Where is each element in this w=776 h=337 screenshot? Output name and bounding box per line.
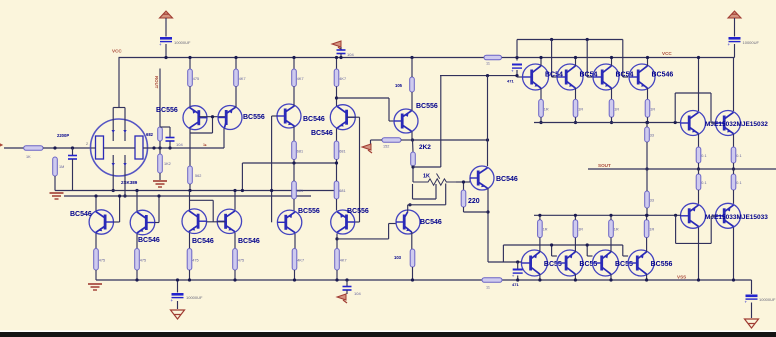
junction rail R16 bbox=[188, 278, 191, 281]
Q17 emitter wire bbox=[647, 88, 649, 99]
U1 right gate bar bbox=[135, 136, 143, 159]
svg-text:ROUT: ROUT bbox=[154, 76, 159, 89]
wire C9 down to base stub bbox=[516, 70, 518, 77]
svg-text:BC55: BC55 bbox=[579, 261, 597, 268]
svg-text:BC546: BC546 bbox=[70, 211, 92, 218]
U1 drain bracket bbox=[113, 107, 125, 109]
wire emitter line B to RE5 bbox=[539, 215, 541, 220]
svg-text:BC55: BC55 bbox=[544, 261, 562, 268]
svg-text:1R: 1R bbox=[544, 107, 549, 111]
junction emitter line 1 bbox=[539, 121, 542, 124]
wire bracket top bbox=[675, 92, 711, 94]
Q7-Q8 base column bbox=[212, 200, 214, 222]
svg-text:BC546: BC546 bbox=[420, 219, 442, 226]
resistor R23 220 bbox=[461, 190, 466, 207]
junction rail R18 bbox=[293, 278, 296, 281]
U1 left drain lead bbox=[112, 108, 114, 120]
wire VSS bottom rail right segment bbox=[502, 279, 752, 281]
Q6 collector wire bbox=[136, 191, 138, 212]
junction VSS rail at C6 bbox=[345, 278, 348, 281]
svg-text:475: 475 bbox=[238, 258, 244, 262]
Q13 emitter wire bbox=[411, 232, 413, 249]
svg-text:2200P: 2200P bbox=[57, 133, 69, 138]
U1 left drain internal bbox=[112, 120, 114, 142]
transistor Q2 BC556 bbox=[218, 106, 242, 130]
junction VCC rail at C5 bbox=[339, 56, 342, 59]
transistor Q13 BC546 bbox=[396, 210, 420, 234]
Q13 base stub bbox=[389, 223, 397, 225]
junction SOUT chain bbox=[645, 167, 648, 170]
wire input node to U1 gate bbox=[91, 147, 96, 149]
wire tail to R13 bbox=[336, 163, 338, 181]
junction VCC Q17 bbox=[646, 56, 649, 59]
wire SOUT to R35 bbox=[733, 169, 735, 174]
transistor Q17 BC546 bbox=[629, 64, 655, 90]
resistor R16 475 bbox=[187, 249, 192, 271]
wire R24 to rail bbox=[412, 267, 414, 280]
Q19 collector wire bbox=[733, 58, 735, 112]
transistor Q7 BC546 bbox=[182, 209, 207, 234]
wire RE5 to Q22 bbox=[539, 238, 541, 252]
wire base line down to emitter node bbox=[502, 245, 504, 262]
svg-text:4K7: 4K7 bbox=[340, 258, 347, 262]
svg-text:682: 682 bbox=[146, 132, 154, 137]
Q25 collector to VSS bbox=[646, 274, 648, 280]
svg-text:33: 33 bbox=[650, 199, 654, 203]
wire VSS rail corner down right bbox=[751, 280, 753, 294]
transistor Q15 BC546 bbox=[557, 64, 583, 90]
Q12 emitter wire bbox=[487, 188, 489, 262]
wire driver emitter line B bbox=[534, 214, 681, 216]
transistor Q8 BC546 bbox=[217, 209, 241, 233]
junction SOUT R29 bbox=[732, 167, 735, 170]
Q5 base feed v bbox=[119, 196, 121, 222]
svg-text:0.1: 0.1 bbox=[701, 181, 706, 185]
ground GND top-right bbox=[728, 11, 741, 18]
svg-text:BC546: BC546 bbox=[192, 238, 214, 245]
base column T3-Q9 bbox=[271, 116, 273, 222]
svg-text:BC556: BC556 bbox=[347, 208, 369, 215]
transistor Q9 BC556 bbox=[277, 210, 301, 234]
wire R2 to ground line bbox=[54, 176, 56, 191]
wire bracket B up right bbox=[710, 216, 712, 243]
Q19 emitter wire bbox=[733, 134, 735, 147]
svg-text:475: 475 bbox=[99, 258, 105, 262]
svg-text:BC546: BC546 bbox=[238, 238, 260, 245]
svg-text:475: 475 bbox=[140, 258, 146, 262]
wire rail to R8 bbox=[336, 58, 338, 70]
Q11 emitter wire bbox=[411, 92, 413, 111]
ground GND input bbox=[50, 192, 64, 194]
transistor Q22 BC556 bbox=[521, 250, 547, 276]
svg-text:681: 681 bbox=[339, 149, 345, 153]
svg-text:104: 104 bbox=[176, 142, 183, 147]
Q7 emitter wire bbox=[189, 233, 191, 249]
wire VCC feed down to U1 bbox=[118, 58, 120, 108]
capacitor C4 10000UF bbox=[746, 295, 758, 298]
junction Q13 collector bbox=[408, 203, 411, 206]
junction FB R3 bbox=[158, 146, 161, 149]
junction lower base line 3 bbox=[586, 243, 589, 246]
wire U1 right gate to feedback node bbox=[143, 147, 224, 149]
wire R23 bottom bbox=[463, 207, 465, 212]
base column T4-Q10 bbox=[359, 117, 361, 222]
wire bracket up left bbox=[674, 93, 676, 123]
transistor Q20 MJE15033 bbox=[681, 203, 706, 228]
wire emitter line B to RE6 bbox=[574, 215, 576, 220]
Q8 collector wire bbox=[234, 191, 236, 210]
wire tail down to bias A bbox=[241, 163, 243, 191]
wire R11 to tail line bbox=[336, 160, 338, 164]
potentiometer RP1 1K zigzag bbox=[413, 179, 456, 185]
stub to Q16 base bbox=[587, 76, 592, 78]
wire rail to R20 bbox=[411, 58, 413, 78]
svg-text:681: 681 bbox=[297, 189, 303, 193]
junction base line 1 bbox=[550, 38, 553, 41]
wire C3 to ground bbox=[177, 301, 179, 309]
wire SOUT to R32 bbox=[646, 169, 648, 191]
ground GND R21 bbox=[362, 144, 371, 150]
wire into Q12 base bbox=[470, 177, 472, 179]
svg-text:1R: 1R bbox=[649, 228, 654, 232]
wire FB node down bbox=[159, 148, 161, 154]
junction emitter line B 2 bbox=[574, 214, 577, 217]
wire R28 to SOUT bbox=[698, 163, 700, 169]
svg-text:BC546: BC546 bbox=[652, 72, 674, 79]
resistor RE2 1R bbox=[573, 99, 578, 117]
resistor R13 681 bbox=[334, 181, 339, 199]
junction VCC Q16 bbox=[610, 56, 613, 59]
junction feedback node bbox=[152, 146, 155, 149]
svg-text:BC556: BC556 bbox=[156, 107, 178, 114]
resistor RE8 1R bbox=[644, 220, 649, 238]
wire RE3 to emitter line bbox=[611, 117, 613, 122]
Q10 emitter wire bbox=[336, 234, 338, 249]
junction C9 bias line bbox=[515, 74, 518, 77]
transistor Q21 MJE15033 bbox=[716, 203, 741, 228]
svg-text:10000UF: 10000UF bbox=[759, 297, 776, 302]
wire Q4 collector to Q11 base h bbox=[337, 97, 390, 99]
junction bias VAS collector bbox=[486, 74, 489, 77]
Q15 emitter wire bbox=[575, 88, 577, 99]
wire RE1 to emitter line bbox=[540, 117, 542, 122]
wire R15 to rail bbox=[136, 270, 138, 280]
junction Q10 emitter tap bbox=[335, 237, 338, 240]
resistor R6 4K7 bbox=[234, 69, 239, 87]
svg-text:BC55: BC55 bbox=[615, 261, 633, 268]
wire input to R1 bbox=[4, 147, 24, 149]
wire rail to R7 bbox=[293, 58, 295, 70]
resistor R31 33 bbox=[645, 127, 650, 142]
resistor R14 475 bbox=[94, 249, 99, 271]
transistor Q14 BC546 bbox=[523, 64, 549, 90]
wire VCC top rail left segment bbox=[119, 57, 485, 59]
junction base column bias A bbox=[270, 189, 273, 192]
junction rail R20 bbox=[410, 56, 413, 59]
Q6 emitter wire bbox=[136, 234, 138, 249]
resistor R20 105 bbox=[410, 77, 415, 92]
junction R22 bias bbox=[411, 165, 414, 168]
wire gnd arrow to cap C5 bbox=[340, 47, 342, 50]
svg-text:2K2: 2K2 bbox=[419, 144, 431, 151]
wire C4 to ground bbox=[751, 303, 753, 319]
junction Q11 collector node bbox=[411, 138, 414, 141]
svg-text:+: + bbox=[159, 42, 162, 47]
wire RE4 to emitter line bbox=[647, 117, 649, 122]
screenshot bottom border bar bbox=[0, 331, 776, 333]
wire emitter line B to RE7 bbox=[610, 215, 612, 220]
wire Q13 loop h bbox=[408, 204, 446, 206]
wire bias up to base line bbox=[516, 58, 518, 61]
junction rail R8 bbox=[335, 56, 338, 59]
Q9 emitter wire bbox=[294, 234, 296, 249]
wire R12 to Q9 top bbox=[293, 199, 295, 211]
wire C6 to gnd arrow bbox=[346, 290, 348, 294]
svg-text:220: 220 bbox=[468, 198, 480, 205]
wire R29 to SOUT bbox=[733, 163, 735, 169]
transistor Q6 BC546 bbox=[130, 210, 155, 235]
base drop Q17 bbox=[622, 40, 624, 78]
wire R31 to SOUT bbox=[646, 142, 648, 169]
junction tail R12 bbox=[292, 161, 295, 164]
svg-text:1M: 1M bbox=[59, 165, 64, 169]
junction SOUT R28 bbox=[697, 167, 700, 170]
svg-text:475: 475 bbox=[192, 258, 198, 262]
junction VSS Q21 bbox=[732, 278, 735, 281]
base drop Q16 bbox=[586, 40, 588, 78]
wire bracket down right bbox=[710, 93, 712, 123]
junction emitter line 2 bbox=[574, 121, 577, 124]
svg-text:1K2: 1K2 bbox=[164, 162, 171, 166]
junction Q4 collector tap bbox=[335, 96, 338, 99]
wire R35 to Q21 bbox=[733, 190, 735, 204]
capacitor C1 10000UF bbox=[160, 37, 172, 40]
wire C8 to FB line bbox=[169, 141, 171, 148]
Q11 collector wire bbox=[411, 132, 413, 141]
junction emitter line B bracket bbox=[674, 214, 677, 217]
transistor Q24 BC556 bbox=[593, 250, 619, 276]
resistor R27 rail decoupler bottom bbox=[482, 278, 502, 283]
Q5 base feed h bbox=[114, 221, 120, 223]
ground GND bottom-left bbox=[171, 310, 185, 319]
U1 right drain internal bbox=[124, 120, 126, 142]
transistor Q1 BC556 bbox=[183, 106, 207, 130]
svg-text:105: 105 bbox=[395, 83, 403, 88]
svg-text:1R: 1R bbox=[578, 107, 583, 111]
resistor R18 4K7 bbox=[292, 249, 297, 271]
wire driver base line top bbox=[517, 39, 623, 41]
svg-text:10000UF: 10000UF bbox=[174, 40, 191, 45]
wire up to Q13 base bbox=[388, 224, 390, 239]
Q8 emitter wire bbox=[234, 233, 236, 249]
capacitor C5 104 bbox=[337, 49, 346, 51]
wire VAS collector up bbox=[487, 76, 489, 166]
wire R14 to rail bbox=[95, 270, 97, 280]
resistor R7 4K7 bbox=[292, 69, 297, 87]
stub to Q17 base bbox=[623, 76, 628, 78]
svg-text:+: + bbox=[728, 42, 731, 47]
Q2 collector wire bbox=[223, 128, 225, 148]
resistor RE1 1R bbox=[539, 99, 544, 117]
junction base line 2 bbox=[586, 38, 589, 41]
svg-text:BC556: BC556 bbox=[416, 103, 438, 110]
Q7 diode loop h bbox=[190, 199, 214, 201]
svg-text:0.1: 0.1 bbox=[701, 154, 706, 158]
U1 left source internal bbox=[112, 155, 114, 176]
transistor Q11 BC556 bbox=[394, 109, 418, 133]
resistor R17 475 bbox=[233, 249, 238, 271]
wire bias line A bbox=[55, 190, 337, 192]
ground GND bottom-right bbox=[745, 319, 759, 328]
wire bias vertical bbox=[440, 76, 442, 167]
junction lower base line 2 bbox=[550, 243, 553, 246]
Q15 collector to VCC bbox=[575, 58, 577, 66]
svg-text:2: 2 bbox=[86, 142, 88, 146]
U1 right source internal bbox=[124, 155, 126, 176]
U1 right source lead bbox=[124, 176, 126, 196]
wire cap C2 to VCC rail bbox=[734, 44, 736, 58]
junction VSS Q20 bbox=[697, 278, 700, 281]
wire Q10 emitter to Q13 base h bbox=[337, 238, 389, 240]
svg-text:BC546: BC546 bbox=[496, 176, 518, 183]
Q3 collector wire bbox=[293, 87, 295, 106]
Q5 collector wire bbox=[95, 196, 97, 211]
wire R3 to FB line bbox=[159, 141, 161, 148]
wire ROUT stub bbox=[159, 69, 161, 128]
ground GND under rail bbox=[88, 283, 102, 285]
wire cap C10 top bbox=[517, 262, 519, 269]
junction VCC rail at C1 bbox=[164, 56, 167, 59]
wire VCC top rail right segment bbox=[502, 57, 735, 59]
Q1 collector wire bbox=[189, 129, 191, 166]
junction VSS C10 bbox=[516, 278, 519, 281]
junction Q6 base bias bbox=[157, 194, 160, 197]
wire R22 bottom bbox=[412, 166, 414, 182]
junction rail R17 bbox=[233, 278, 236, 281]
transistor Q23 BC556 bbox=[557, 250, 583, 276]
wire node to Q12 collector bbox=[413, 139, 488, 141]
junction left source on bias line A bbox=[112, 189, 115, 192]
svg-text:BC556: BC556 bbox=[243, 114, 265, 121]
wire bracket B to Q21 base bbox=[711, 215, 715, 217]
transistor Q18 MJE15032 bbox=[681, 111, 706, 136]
svg-text:471: 471 bbox=[512, 282, 519, 287]
transistor Q16 BC546 bbox=[593, 64, 619, 90]
resistor RE3 1R bbox=[609, 99, 614, 117]
junction emitter line B 1 bbox=[538, 214, 541, 217]
wire top-right ground to cap bbox=[734, 18, 736, 37]
junction emitter line 4 bbox=[646, 121, 649, 124]
junction VCC Q15 bbox=[574, 56, 577, 59]
wire R13 to Q10 top bbox=[336, 199, 338, 211]
junction rail R6 bbox=[234, 56, 237, 59]
Q17 collector to VCC bbox=[647, 58, 649, 66]
wire R23 to emitter line bbox=[464, 211, 489, 213]
capacitor C8 104 bbox=[166, 137, 175, 139]
wire Q13 loop right v bbox=[445, 184, 447, 205]
wire C5 to VCC rail bbox=[340, 54, 342, 58]
Q24 collector to VSS bbox=[610, 274, 612, 280]
svg-text:4K7: 4K7 bbox=[239, 77, 246, 81]
transistor Q3 BC546 bbox=[277, 104, 301, 128]
svg-text:BC556: BC556 bbox=[298, 208, 320, 215]
junction cap node bbox=[516, 260, 519, 263]
base drop Q15 bbox=[551, 40, 553, 78]
svg-text:681: 681 bbox=[297, 149, 303, 153]
resistor R8 4K7 bbox=[334, 69, 339, 87]
Q5 emitter wire bbox=[95, 234, 97, 249]
svg-text:104: 104 bbox=[354, 291, 361, 296]
wire into Q11 base bbox=[389, 120, 394, 122]
svg-text:10000UF: 10000UF bbox=[743, 40, 760, 45]
junction tail bias A bbox=[241, 189, 244, 192]
wire cap C10 to rail bbox=[517, 276, 519, 281]
svg-text:BC546: BC546 bbox=[311, 130, 333, 137]
wire bracket B down left bbox=[675, 215, 677, 243]
Q4 collector wire bbox=[336, 87, 338, 107]
wire C7 to bias line bbox=[72, 159, 74, 191]
resistor RE5 1R bbox=[538, 220, 543, 238]
wire R16 to rail bbox=[189, 270, 191, 280]
svg-text:VCC: VCC bbox=[662, 51, 672, 56]
Q20 collector wire bbox=[698, 228, 700, 281]
junction rail R19 bbox=[335, 278, 338, 281]
Q14 collector to VCC bbox=[540, 58, 542, 66]
junction VSS Q22 bbox=[538, 278, 541, 281]
svg-text:2SK389: 2SK389 bbox=[121, 180, 138, 185]
svg-text:SOUT: SOUT bbox=[598, 163, 611, 168]
resistor R29 0.1 bbox=[731, 147, 736, 163]
node A junction R2 bbox=[53, 146, 56, 149]
U1 left source lead bbox=[112, 176, 114, 191]
U1 arrow marks bbox=[112, 130, 127, 166]
base drop Q24 bbox=[586, 245, 588, 256]
junction VCC Q14 bbox=[539, 56, 542, 59]
ground GND bottom-middle bbox=[337, 294, 346, 300]
svg-text:BC546: BC546 bbox=[303, 116, 325, 123]
resistor R28 0.1 bbox=[696, 147, 701, 163]
junction rail R15 bbox=[135, 278, 138, 281]
Q6 base feed v bbox=[158, 196, 160, 223]
resistor R1 1K bbox=[24, 146, 43, 151]
junction emitter line bracket bbox=[674, 121, 677, 124]
junction tail R13 bbox=[335, 161, 338, 164]
junction Q8 bias A bbox=[233, 189, 236, 192]
transistor Q12 BC546 bbox=[470, 166, 494, 190]
junction Q5 bias B bbox=[94, 194, 97, 197]
resistor R2 1M bbox=[53, 157, 58, 176]
wire R19 to rail bbox=[336, 270, 338, 280]
svg-text:1K: 1K bbox=[26, 155, 31, 159]
svg-text:1K: 1K bbox=[423, 174, 430, 180]
svg-text:4K7: 4K7 bbox=[297, 77, 304, 81]
Q4 base feed h bbox=[347, 116, 360, 118]
svg-text:1R: 1R bbox=[543, 228, 548, 232]
svg-text:10000UF: 10000UF bbox=[186, 295, 203, 300]
resistor R15 475 bbox=[135, 249, 140, 271]
ground GND feedback bbox=[153, 180, 167, 182]
wire cap C1 to VCC rail bbox=[165, 44, 167, 58]
resistor R4 1K2 bbox=[158, 154, 163, 173]
wire SOUT to R34 bbox=[698, 169, 700, 174]
junction emitter line chain bbox=[645, 121, 648, 124]
wire driver bias line bbox=[440, 75, 517, 77]
Q16 emitter wire bbox=[611, 88, 613, 99]
Q18 emitter wire bbox=[698, 134, 700, 147]
svg-text:+: + bbox=[512, 274, 515, 279]
svg-text:+: + bbox=[171, 298, 174, 303]
svg-text:MJE15033MJE15033: MJE15033MJE15033 bbox=[705, 214, 768, 221]
